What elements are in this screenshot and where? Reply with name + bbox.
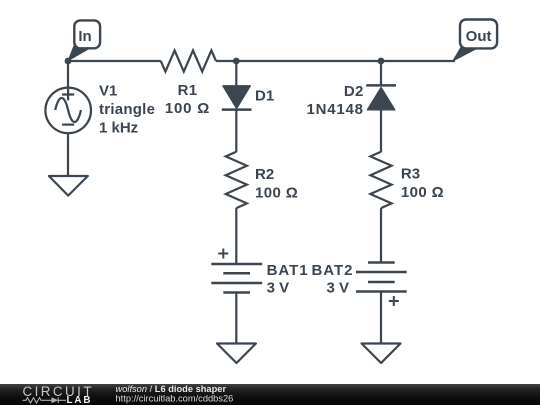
label R2 bbox=[255, 166, 298, 201]
battery BAT2 bbox=[356, 263, 407, 292]
resistor R1 bbox=[161, 50, 216, 71]
wire D2 anode to R3 bbox=[380, 110, 382, 152]
diode D1 bbox=[222, 86, 252, 110]
svg-text:BAT2: BAT2 bbox=[311, 262, 353, 279]
label V1 bbox=[99, 83, 155, 137]
svg-text:wolfson / L6 diode shaper: wolfson / L6 diode shaper bbox=[116, 384, 227, 394]
svg-text:R3: R3 bbox=[401, 165, 420, 182]
label R1 bbox=[165, 82, 210, 117]
svg-text:3 V: 3 V bbox=[326, 279, 349, 296]
wire D1 cathode to R2 bbox=[235, 110, 237, 152]
wire R2 to BAT1 bbox=[235, 208, 237, 264]
BAT2 plus sign bbox=[389, 296, 399, 306]
wire V1 to ground bbox=[67, 134, 69, 177]
footer bar bbox=[0, 384, 540, 405]
svg-text:1N4148: 1N4148 bbox=[306, 101, 363, 118]
wire BAT1 to ground bbox=[235, 293, 237, 344]
svg-text:V1: V1 bbox=[99, 83, 117, 100]
wire node A to node B bbox=[236, 60, 381, 62]
CircuitLab logo resistor-diode glyph bbox=[23, 397, 67, 403]
wire R1 to node A bbox=[216, 60, 236, 62]
flag In bbox=[67, 20, 100, 61]
svg-text:R2: R2 bbox=[255, 166, 274, 183]
svg-text:100 Ω: 100 Ω bbox=[401, 184, 444, 201]
battery BAT1 bbox=[211, 264, 262, 293]
svg-text:R1: R1 bbox=[178, 82, 198, 99]
node A junction dot bbox=[233, 58, 240, 65]
wire In node down to V1 bbox=[67, 61, 69, 88]
svg-text:BAT1: BAT1 bbox=[267, 262, 309, 279]
node B junction dot bbox=[378, 58, 385, 65]
label R3 bbox=[401, 165, 444, 200]
label BAT1 bbox=[267, 262, 309, 297]
node In junction dot bbox=[65, 58, 72, 65]
resistor R2 bbox=[226, 152, 247, 208]
wire BAT2 to ground bbox=[380, 292, 382, 344]
BAT1 plus sign bbox=[218, 249, 228, 259]
svg-text:triangle: triangle bbox=[99, 101, 155, 118]
svg-text:D2: D2 bbox=[344, 83, 364, 100]
voltage source V1 bbox=[45, 88, 91, 134]
svg-text:3 V: 3 V bbox=[267, 279, 290, 296]
svg-text:Out: Out bbox=[466, 28, 492, 45]
svg-text:100 Ω: 100 Ω bbox=[255, 184, 298, 201]
svg-text:In: In bbox=[78, 28, 91, 45]
svg-text:D1: D1 bbox=[255, 88, 274, 105]
wire node A to D1 anode bbox=[235, 61, 237, 86]
wire main horizontal In to R1 bbox=[68, 60, 161, 62]
svg-text:LAB: LAB bbox=[67, 395, 93, 405]
ground (BAT2) bbox=[362, 344, 401, 364]
resistor R3 bbox=[370, 152, 391, 208]
diode D2 bbox=[366, 85, 396, 109]
wire node B to Out bbox=[381, 60, 455, 62]
label D2 bbox=[306, 83, 363, 118]
ground (BAT1) bbox=[217, 344, 256, 364]
svg-text:1 kHz: 1 kHz bbox=[99, 119, 138, 136]
label BAT2 bbox=[311, 262, 353, 297]
svg-text:100 Ω: 100 Ω bbox=[165, 100, 210, 117]
flag Out bbox=[452, 20, 498, 63]
wire R3 to BAT2 bbox=[380, 208, 382, 262]
wire node B to D2 cathode bbox=[380, 61, 382, 85]
svg-text:http://circuitlab.com/cddbs26: http://circuitlab.com/cddbs26 bbox=[116, 394, 234, 404]
ground (V1) bbox=[49, 176, 88, 196]
